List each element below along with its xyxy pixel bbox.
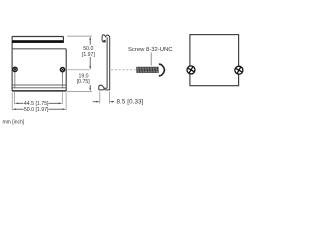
front view: DIN rail top edge (12, 36, 63, 38)
screw pan head (159, 64, 165, 76)
svg-text:8.5 [0.33]: 8.5 [0.33] (117, 98, 144, 105)
front view: left screw slot line (14, 72, 16, 89)
vertical dimension line segments with arrows (50.0 / 19.0) (89, 36, 91, 91)
extension line: screw axis level (68, 69, 90, 71)
extension line: bottom of body (67, 91, 92, 93)
front view: right mounting screw (60, 67, 64, 71)
side view: top hook inner curl (102, 40, 105, 42)
svg-text:[1.97]: [1.97] (82, 52, 96, 58)
side view: bottom foot outer profile (99, 85, 107, 90)
screw threaded shank (136, 67, 159, 73)
svg-text:mm [inch]: mm [inch] (3, 119, 25, 125)
front view: DIN rail lip (black band) (12, 40, 63, 43)
side view: hook spring hole (104, 40, 106, 42)
extension line: screw spacing left (14, 92, 16, 104)
dimension line 44.5 with arrows (15, 102, 63, 104)
svg-text:[0.75]: [0.75] (77, 79, 91, 85)
top view: left phillips screw (186, 65, 196, 75)
front view: base flange line upper (12, 84, 66, 86)
side view: top hook outer profile (102, 35, 109, 40)
side view: bottom foot lower edge with notch (99, 89, 110, 90)
screw center dashed line (111, 69, 136, 71)
top view: right phillips screw (234, 65, 244, 75)
front view: adapter body bottom edge (12, 90, 66, 92)
callout leader line (150, 53, 152, 66)
front view: left mounting screw (13, 67, 17, 71)
screw head drive nub (164, 69, 166, 71)
front view: plate top line (12, 48, 66, 50)
dimension line 8.5 with outside arrows (93, 101, 115, 103)
top view: mounting plate outline (190, 35, 239, 86)
extension line: overall width left (11, 92, 13, 110)
svg-text:Screw 8-32-UNC: Screw 8-32-UNC (128, 47, 173, 53)
front view: right screw slot line (61, 72, 63, 89)
front view: base flange line lower (12, 87, 66, 89)
front view: DIN rail right end closure (62, 37, 64, 44)
side view: plate left wall (106, 37, 108, 88)
side view: plate right wall (109, 36, 111, 90)
extension line: overall width right (65, 92, 67, 110)
extension line: screw spacing right (61, 92, 63, 104)
svg-text:50.0 [1.97]: 50.0 [1.97] (24, 107, 49, 113)
front view: adapter body left edge (11, 36, 13, 91)
extension line: foot depth right (108, 92, 110, 104)
dimension line 50.0 with arrows (12, 108, 66, 110)
front view: adapter body right edge (65, 49, 67, 91)
extension line: top of body (67, 35, 92, 37)
extension line: foot depth left (99, 92, 101, 104)
